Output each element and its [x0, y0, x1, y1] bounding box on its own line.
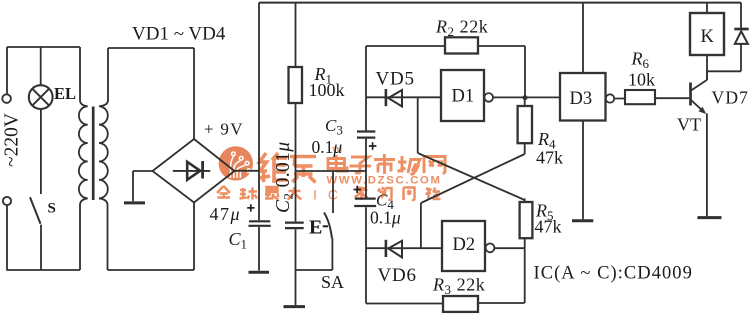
svg-text:S: S	[48, 201, 56, 217]
svg-text:100k: 100k	[309, 80, 345, 100]
svg-text:SA: SA	[321, 272, 344, 292]
svg-text:VT: VT	[677, 115, 701, 135]
svg-text:47k: 47k	[535, 217, 562, 237]
svg-text:VD7: VD7	[712, 88, 750, 108]
svg-text:EL: EL	[54, 84, 76, 103]
svg-text:K: K	[701, 27, 715, 47]
svg-text:47μ: 47μ	[210, 204, 242, 224]
svg-text:10k: 10k	[628, 70, 655, 90]
svg-text:R3 22k: R3 22k	[432, 275, 485, 298]
svg-text:WWW.DZSC.COM: WWW.DZSC.COM	[327, 175, 442, 187]
svg-text:C1: C1	[229, 229, 248, 252]
svg-text:C2 0.01μ: C2 0.01μ	[273, 141, 296, 213]
svg-text:+ 9V: + 9V	[204, 120, 244, 139]
svg-text:C3: C3	[325, 116, 343, 138]
svg-text:D3: D3	[570, 89, 593, 109]
svg-text:0.1μ: 0.1μ	[312, 137, 343, 157]
svg-text:D1: D1	[452, 87, 475, 107]
svg-text:VD5: VD5	[376, 69, 415, 90]
svg-text:D2: D2	[453, 235, 476, 255]
svg-text:0.1μ: 0.1μ	[370, 208, 401, 228]
svg-text:IC: IC	[313, 187, 349, 203]
svg-text:R6: R6	[631, 49, 650, 72]
svg-text:VD6: VD6	[378, 265, 417, 286]
svg-text:IC(A ~ C):CD4009: IC(A ~ C):CD4009	[534, 264, 693, 284]
svg-text:VD1 ~ VD4: VD1 ~ VD4	[132, 24, 226, 45]
svg-text:47k: 47k	[536, 148, 563, 168]
svg-text:E: E	[309, 217, 322, 239]
svg-text:R2 22k: R2 22k	[435, 17, 488, 40]
svg-text:~220V: ~220V	[2, 113, 23, 167]
